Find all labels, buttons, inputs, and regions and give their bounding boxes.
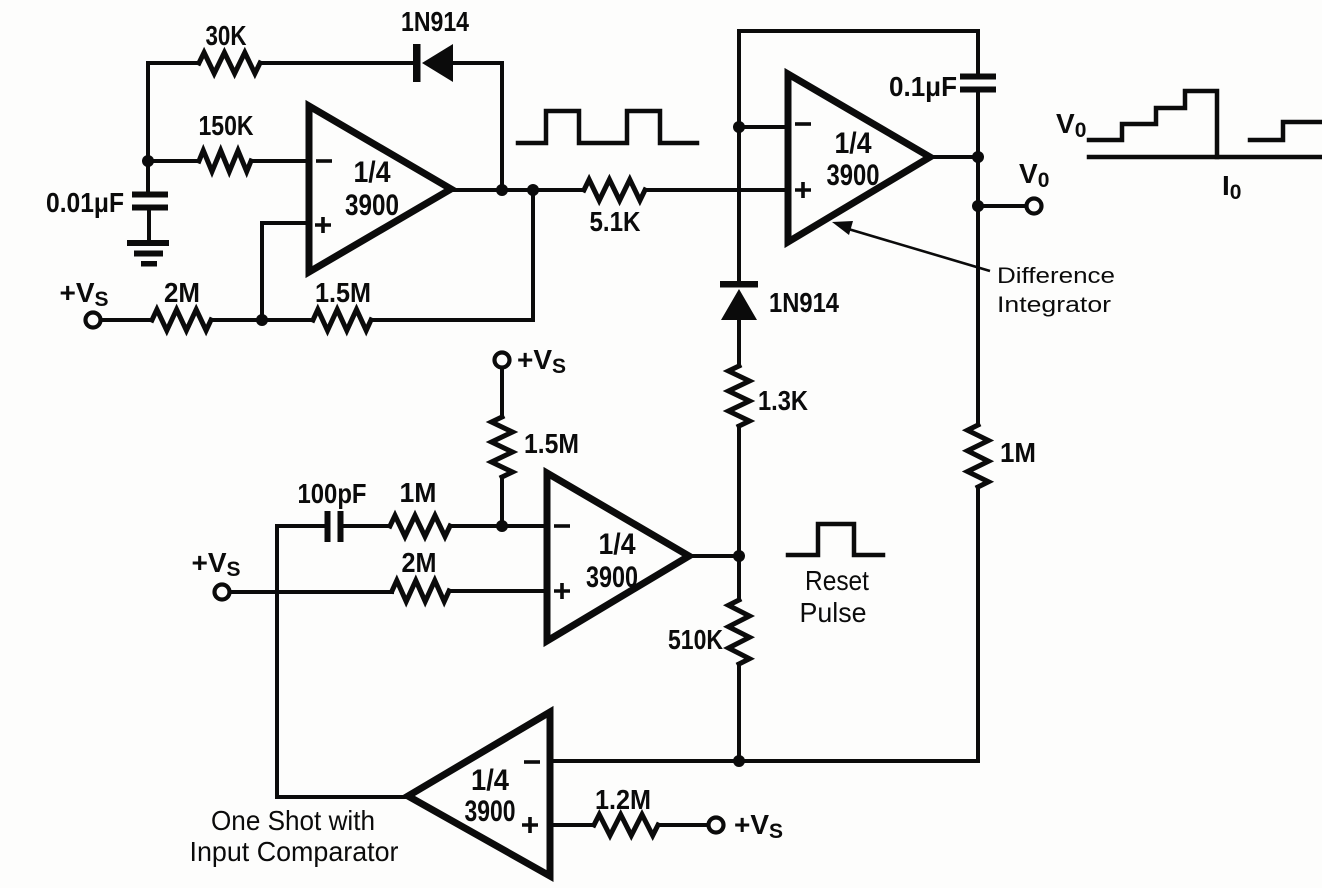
- node: U3 output junction: [733, 550, 745, 562]
- wire: left rail vertical: [146, 63, 150, 192]
- node: output junction on right rail: [972, 151, 984, 163]
- capacitor C3 100pF: [325, 511, 331, 542]
- resistor R 30K: [199, 53, 260, 74]
- svg-text:Integrator: Integrator: [997, 292, 1111, 317]
- svg-text:1N914: 1N914: [769, 287, 839, 318]
- terminal +Vs one-shot: [709, 818, 724, 833]
- svg-text:1/4: 1/4: [835, 127, 872, 160]
- waveform: staircase steps: [1089, 91, 1217, 157]
- svg-text:1.5M: 1.5M: [315, 277, 371, 308]
- diode D1 1N914: [413, 44, 421, 82]
- svg-text:1M: 1M: [400, 477, 437, 508]
- svg-text:1.3K: 1.3K: [758, 385, 808, 416]
- wire: minus input wire from 100pF corner: [277, 524, 325, 528]
- resistor R 1.3K: [729, 366, 750, 426]
- terminal +Vs mid: [495, 353, 510, 368]
- svg-text:1N914: 1N914: [401, 6, 469, 37]
- wire: +Vs to 1.5M: [500, 368, 504, 417]
- wire: top wire between 30K and diode: [260, 61, 414, 65]
- wire: U2 output: [930, 155, 978, 159]
- svg-text:100pF: 100pF: [298, 478, 367, 509]
- svg-text:2M: 2M: [164, 277, 200, 308]
- svg-text:1.5M: 1.5M: [524, 428, 579, 459]
- waveform: staircase second cycle: [1250, 122, 1322, 140]
- resistor R 1.5M mid: [492, 417, 513, 477]
- op-amp U3 1/4 3900: [547, 473, 689, 641]
- wire: top feedback wire left segment: [148, 61, 199, 65]
- wire: 1.5M to minus node: [500, 477, 504, 526]
- svg-text:30K: 30K: [206, 20, 247, 51]
- resistor R 2M stage1: [152, 310, 211, 331]
- wire: right rail lower: [739, 487, 978, 761]
- wire: top wire right + down to output node: [453, 63, 502, 190]
- wire: center vertical rail upper: [737, 31, 741, 281]
- svg-text:1.2M: 1.2M: [595, 784, 651, 815]
- ground symbol: [127, 240, 169, 246]
- svg-text:Difference: Difference: [997, 263, 1115, 288]
- node: U3 minus input junction: [496, 520, 508, 532]
- node: output junction with feedback branch: [527, 184, 539, 196]
- annotation arrow to U2: [845, 228, 990, 271]
- wire: diode to 1.3K: [737, 320, 741, 366]
- svg-text:1/4: 1/4: [599, 528, 636, 561]
- wire: 5.1K to U2 plus input: [645, 188, 788, 192]
- op-amp U1 1/4 3900: [309, 106, 451, 272]
- svg-text:One Shot with: One Shot with: [211, 805, 375, 836]
- waveform: reset pulse: [788, 524, 883, 555]
- op-amp U4 one-shot (points left): [408, 712, 550, 876]
- diode D2 1N914: [720, 281, 758, 288]
- node: junction 2M/1.5M/plus branch: [256, 314, 268, 326]
- node: junction U2 minus input: [733, 121, 745, 133]
- svg-text:2M: 2M: [402, 547, 437, 578]
- wire: 1.3K to U3 output node: [737, 426, 741, 600]
- node: junction one-shot wire / 510K rail: [733, 755, 745, 767]
- svg-text:3900: 3900: [345, 189, 399, 222]
- wire: V0 tap: [978, 204, 1026, 208]
- wire: U3 output to node: [689, 554, 739, 558]
- wire: integrator top feedback wire: [739, 29, 978, 33]
- wire: minus input wire op-amp U1: [148, 159, 309, 163]
- svg-text:1/4: 1/4: [471, 764, 509, 797]
- terminal +Vs comparator input: [215, 585, 230, 600]
- wire: bias wire mid: [211, 318, 313, 322]
- wire: +Vs input wire to 2M: [230, 590, 392, 594]
- node: junction left rail / 150K: [142, 155, 154, 167]
- op-amp U2 1/4 3900: [788, 74, 930, 242]
- resistor R 1.5M stage1: [313, 310, 371, 331]
- svg-text:Pulse: Pulse: [800, 597, 867, 628]
- wire: U2 minus input wire: [739, 125, 788, 129]
- svg-text:5.1K: 5.1K: [590, 206, 641, 237]
- svg-text:3900: 3900: [586, 561, 638, 594]
- svg-text:3900: 3900: [827, 159, 880, 192]
- wire: plus input branch of U1: [262, 223, 309, 320]
- wire: feedback from output node down to 1.5M: [371, 190, 533, 320]
- wire: 100pF to 1M: [343, 524, 390, 528]
- resistor R 1M mid: [390, 516, 450, 537]
- resistor R 5.1K: [584, 180, 645, 201]
- svg-text:Reset: Reset: [805, 565, 869, 596]
- wire: feedback vertical to one-shot apex: [277, 526, 408, 797]
- wire: 1.2M to +Vs terminal: [658, 823, 708, 827]
- resistor R 150K: [199, 151, 251, 172]
- svg-text:510K: 510K: [668, 624, 723, 655]
- wire: 2M to U3 plus: [449, 589, 547, 593]
- wire: one-shot plus to 1.2M: [550, 823, 594, 827]
- resistor R 2M mid: [392, 581, 449, 602]
- wire: U1 output wire to U2 plus input: [451, 188, 584, 192]
- capacitor C2 0.1uF: [976, 31, 980, 74]
- terminal +Vs stage1: [86, 313, 101, 328]
- waveform: staircase baseline: [1089, 155, 1322, 160]
- wire: 1M to U3 minus: [450, 524, 547, 528]
- capacitor C1 0.01uF: [132, 192, 168, 198]
- wire: right rail 1M branch: [968, 425, 989, 487]
- terminal V0 output: [1027, 199, 1042, 214]
- node: output junction with diode branch: [496, 184, 508, 196]
- resistor R 510K: [729, 600, 750, 664]
- svg-text:Input Comparator: Input Comparator: [190, 836, 399, 867]
- node: V0 tap junction: [972, 200, 984, 212]
- wire: one-shot minus input wire to right rail: [550, 759, 978, 763]
- svg-text:3900: 3900: [465, 795, 516, 828]
- svg-text:150K: 150K: [199, 110, 254, 141]
- svg-text:0.01μF: 0.01μF: [46, 187, 124, 218]
- wire: 510K down to one-shot wire: [737, 664, 741, 761]
- svg-text:0.1μF: 0.1μF: [889, 71, 957, 102]
- svg-text:1/4: 1/4: [354, 156, 391, 189]
- svg-text:1M: 1M: [1000, 437, 1036, 468]
- resistor R 1.2M: [594, 815, 658, 836]
- waveform: square wave symbol: [518, 111, 697, 143]
- wire: bottom bias wire left: [101, 318, 152, 322]
